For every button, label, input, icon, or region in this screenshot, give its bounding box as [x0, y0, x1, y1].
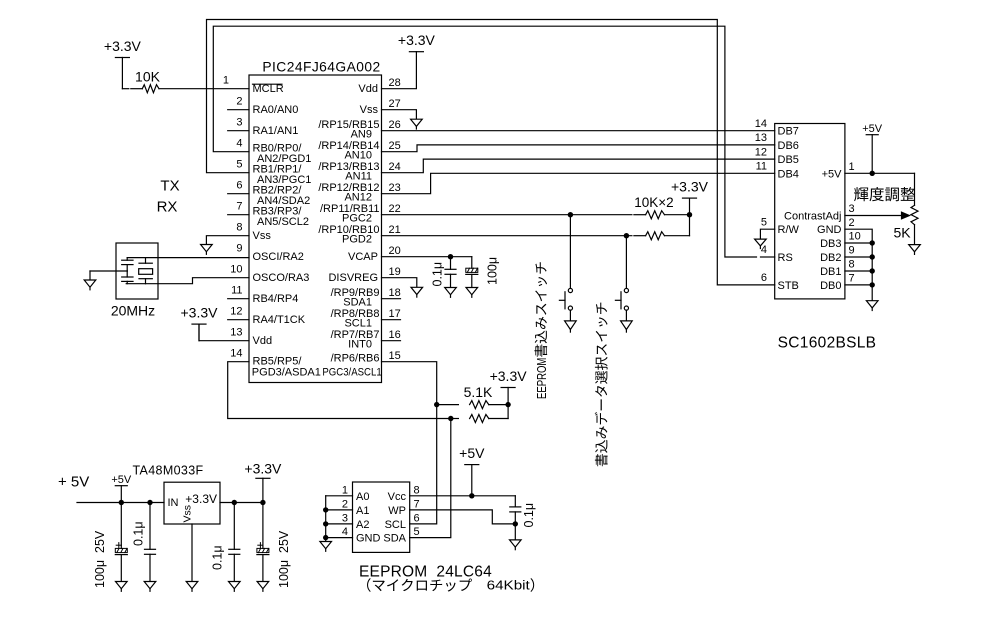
svg-text:+5V: +5V — [459, 445, 485, 461]
svg-text:OSCI/RA2: OSCI/RA2 — [253, 251, 304, 263]
svg-text:22: 22 — [389, 203, 401, 215]
wire EEPROM WP to gnd — [410, 510, 516, 524]
svg-text:AN12: AN12 — [344, 192, 372, 204]
wire U1 pin23 RB12 to LCD DB4 — [382, 173, 775, 193]
svg-text:25: 25 — [389, 140, 401, 152]
resonator X1 enclosure box — [116, 243, 158, 299]
junction (C5/WP gnd) — [513, 521, 518, 526]
svg-text:+5V: +5V — [822, 168, 843, 180]
label 100u (VCAP) — [486, 257, 500, 285]
wire SW1 from PGC2 — [569, 215, 571, 289]
svg-text:PGC2: PGC2 — [342, 213, 372, 225]
junction (SCL node) — [434, 402, 439, 407]
ground (DISVREG) — [411, 287, 423, 294]
svg-text:10K: 10K — [135, 69, 161, 85]
ground (C5/WP) — [510, 540, 522, 547]
wire LCD pin2 GND — [845, 229, 872, 301]
junction (+5V EEPROM) — [469, 493, 474, 498]
wire EEPROM A2 — [326, 523, 353, 525]
ground (C7) — [144, 582, 156, 589]
junction (+5V LCD) — [870, 171, 875, 176]
svg-text:1: 1 — [849, 161, 855, 173]
junction (C8) — [232, 500, 237, 505]
crystal Y1 20MHz symbol — [145, 258, 147, 264]
ground (resonator) — [84, 280, 96, 287]
svg-text:0.1μ: 0.1μ — [522, 503, 536, 528]
svg-text:EEPROM 24LC64: EEPROM 24LC64 — [359, 564, 492, 581]
svg-text:12: 12 — [755, 146, 767, 158]
svg-text:5: 5 — [414, 526, 420, 538]
switch SW2 (data select) — [624, 288, 628, 292]
wire EEPROM A1 — [326, 509, 353, 511]
wire R5 to +3.3V node — [665, 214, 690, 216]
svg-text:10: 10 — [849, 231, 861, 243]
svg-text:6: 6 — [236, 179, 242, 191]
svg-text:7: 7 — [236, 200, 242, 212]
capacitor C6 100u 25V electrolytic — [120, 503, 122, 549]
svg-text:STB: STB — [778, 280, 799, 292]
wire pot top — [914, 173, 916, 205]
junction DB0 — [870, 282, 875, 287]
svg-text:13: 13 — [755, 132, 767, 144]
svg-text:20MHz: 20MHz — [111, 303, 155, 319]
wire SDA to 5.1K resistor — [451, 418, 459, 420]
capacitor C5 0.1u (EEPROM) — [514, 496, 516, 507]
resistor R3 5.1K (SCL pull-up) — [470, 401, 489, 409]
U1 pin 17 stub wire — [382, 319, 401, 321]
svg-text:8: 8 — [414, 484, 420, 496]
svg-text:28: 28 — [389, 77, 401, 89]
wire U1 pin8 Vss to ground — [206, 236, 249, 245]
wire LCD DB3 to gnd — [845, 242, 872, 244]
svg-text:17: 17 — [389, 308, 401, 320]
U1 pin 12 stub wire — [228, 319, 249, 321]
svg-text:RA4/T1CK: RA4/T1CK — [253, 314, 306, 326]
svg-text:/RP6/RB6: /RP6/RB6 — [331, 353, 380, 365]
wire U1 pin4 RB0 to LCD RS (loop B) — [213, 26, 756, 257]
svg-text:3: 3 — [236, 116, 242, 128]
ground (EEPROM address/GND) — [320, 542, 332, 549]
resistor R5 10K — [646, 211, 665, 219]
wire U1 pin22 PGC2 — [382, 214, 632, 216]
svg-text:2: 2 — [849, 217, 855, 229]
svg-text:+5V: +5V — [111, 474, 132, 486]
wire U1 pin24 RB13 to LCD DB5 — [382, 159, 775, 173]
svg-text:SCL: SCL — [385, 519, 406, 531]
svg-text:100μ 25V: 100μ 25V — [277, 530, 291, 588]
svg-text:+3.3V: +3.3V — [671, 179, 709, 195]
label EEPROM write switch (vertical) — [534, 262, 549, 399]
svg-text:DB2: DB2 — [820, 252, 841, 264]
svg-text:0.1μ: 0.1μ — [431, 262, 445, 287]
svg-text:2: 2 — [342, 498, 348, 510]
junction (VCAP node) — [448, 254, 453, 259]
wire R1 to U1 pin 1 — [159, 88, 249, 90]
svg-text:14: 14 — [755, 118, 767, 130]
svg-text:DB3: DB3 — [820, 238, 841, 250]
svg-text:64Kbit: 64Kbit — [487, 578, 531, 593]
svg-text:1: 1 — [342, 484, 348, 496]
wire +5V input rail — [77, 502, 164, 504]
wire pot bottom — [914, 225, 916, 245]
svg-text:4: 4 — [761, 244, 767, 256]
svg-text:VCAP: VCAP — [348, 251, 378, 263]
junction (C9) — [260, 500, 265, 505]
label write data select switch (vertical) — [595, 303, 608, 467]
svg-text:+3.3V: +3.3V — [181, 305, 219, 321]
ground (C9) — [257, 582, 269, 589]
wire LCD R/W to ground — [760, 229, 774, 239]
wire SW2 from PGD2 — [625, 236, 627, 289]
svg-text:GND: GND — [817, 224, 842, 236]
wire U1 pin9 OSCI to resonator — [127, 257, 249, 259]
capacitor C9 100u 25V electrolytic — [262, 503, 264, 549]
svg-text:11: 11 — [231, 284, 242, 296]
svg-text:Vss: Vss — [360, 104, 379, 116]
resonator bottom rail — [126, 283, 158, 285]
svg-text:RS: RS — [778, 252, 793, 264]
ground (U1 Vss pin27) — [411, 119, 423, 126]
resistor R6 10K — [646, 232, 665, 240]
svg-text:EEPROM: EEPROM — [534, 358, 549, 399]
wire SCL to 5.1K resistor — [437, 404, 459, 406]
load capacitor C2 (in resonator) — [126, 271, 128, 277]
svg-text:6: 6 — [761, 272, 767, 284]
wire EEPROM A0 — [326, 495, 353, 497]
svg-text:+ 5V: + 5V — [58, 474, 89, 491]
wire LCD DB0 to gnd — [845, 284, 872, 286]
svg-text:INT0: INT0 — [348, 339, 372, 351]
ground (U3 Vss) — [186, 582, 198, 589]
svg-text:7: 7 — [414, 498, 420, 510]
svg-text:24: 24 — [389, 161, 401, 173]
potentiometer VR1 5K — [911, 205, 918, 224]
svg-text:DB1: DB1 — [820, 266, 841, 278]
svg-text:MCLR: MCLR — [253, 83, 284, 95]
wire RS segment — [761, 256, 775, 258]
svg-text:10: 10 — [230, 263, 242, 275]
capacitor C8 0.1u — [233, 503, 235, 550]
wire U1 pin10 OSCO to resonator — [158, 278, 249, 284]
wire U1 pin19 DISVREG to ground — [382, 278, 417, 288]
U1 pin 11 stub wire — [228, 298, 249, 300]
U1 pin 7 stub wire — [228, 214, 249, 216]
wire R6 to +3.3V node — [665, 235, 690, 237]
LCD module body — [775, 124, 845, 299]
svg-text:AN11: AN11 — [345, 171, 372, 183]
ground (SW2) — [621, 321, 633, 330]
IC U1 PIC24FJ64GA002 body — [249, 75, 382, 383]
svg-text:RX: RX — [157, 199, 178, 216]
svg-text:6: 6 — [414, 512, 420, 524]
junction (10K +3.3V node) — [687, 212, 692, 217]
label (Microchip 64Kbit) — [367, 578, 371, 592]
junction DB2 — [870, 254, 875, 259]
junction (5.1K +3.3V node) — [505, 402, 510, 407]
ground (C8) — [229, 582, 241, 589]
svg-text:R/W: R/W — [778, 224, 800, 236]
svg-text:5: 5 — [761, 216, 767, 228]
svg-text:DB6: DB6 — [778, 140, 799, 152]
svg-text:+3.3V: +3.3V — [398, 32, 436, 48]
svg-text:AN10: AN10 — [344, 150, 372, 162]
svg-text:AN9: AN9 — [351, 129, 372, 141]
resistor R1 10K — [142, 85, 159, 93]
svg-text:5K: 5K — [893, 225, 911, 241]
svg-text:SDA1: SDA1 — [343, 297, 372, 309]
load capacitor C1 (in resonator) — [126, 258, 128, 261]
label brightness adjust (kido chosei) — [854, 187, 868, 201]
svg-text:+3.3V: +3.3V — [185, 492, 217, 506]
switch SW1 (EEPROM write) — [568, 288, 572, 292]
resistor R4 5.1K (SDA pull-up) — [470, 415, 489, 423]
junction (switch SW2 node) — [624, 233, 629, 238]
svg-text:RB4/RP4: RB4/RP4 — [253, 293, 299, 305]
svg-text:OSCO/RA3: OSCO/RA3 — [253, 272, 310, 284]
svg-text:A2: A2 — [356, 519, 369, 531]
ground (C4) — [466, 288, 478, 295]
svg-text:DB0: DB0 — [820, 280, 841, 292]
U1 pin 16 stub wire — [382, 340, 401, 342]
svg-text:4: 4 — [342, 526, 348, 538]
svg-text:DISVREG: DISVREG — [328, 272, 378, 284]
svg-text:PGD2: PGD2 — [342, 234, 372, 246]
svg-text:Vdd: Vdd — [358, 83, 378, 95]
svg-text:TA48M033F: TA48M033F — [133, 464, 204, 478]
capacitor C3 0.1u (VCAP) — [450, 257, 452, 270]
wire U1 pin28 Vdd — [382, 52, 417, 89]
U1 pin 3 stub wire — [228, 130, 249, 132]
wire U1 pin25 RB14 to LCD DB6 — [382, 145, 775, 152]
svg-text:0.1μ: 0.1μ — [132, 521, 146, 546]
EEPROM U2 body — [353, 482, 410, 552]
svg-text:8: 8 — [236, 221, 242, 233]
wire SW2 to ground — [625, 310, 627, 321]
svg-text:4: 4 — [236, 137, 242, 149]
ground (U1 Vss pin8) — [201, 245, 213, 252]
svg-text:16: 16 — [389, 329, 401, 341]
svg-text:PGD3/ASDA1: PGD3/ASDA1 — [252, 367, 321, 379]
ground (SW1) — [565, 321, 577, 330]
capacitor C7 0.1u — [149, 503, 151, 550]
svg-text:RA1/AN1: RA1/AN1 — [253, 125, 299, 137]
junction GND — [323, 535, 328, 540]
wire LCD pin3 ContrastAdj to wiper — [845, 215, 901, 217]
label 0.1u (C8) — [211, 545, 225, 570]
junction (SDA node) — [448, 416, 453, 421]
wire MCLR node — [122, 88, 128, 90]
wire +3.3V output rail — [220, 502, 263, 504]
junction DB1 — [870, 268, 875, 273]
svg-text:DB7: DB7 — [778, 126, 799, 138]
U1 pin 6 stub wire — [228, 193, 249, 195]
svg-text:ContrastAdj: ContrastAdj — [784, 211, 841, 223]
regulator U3 TA48M033F body — [164, 482, 220, 524]
label 0.1u (VCAP) — [431, 262, 445, 287]
wire U1 pin5 RB1 to LCD STB (loop A) — [207, 20, 775, 285]
svg-text:0.1μ: 0.1μ — [211, 545, 225, 570]
plus mark (C9) — [258, 544, 263, 546]
plus mark (C6) — [116, 544, 121, 546]
svg-text:Vdd: Vdd — [253, 335, 273, 347]
wire U1 pin13 Vdd — [199, 324, 249, 341]
svg-text:PIC24FJ64GA002: PIC24FJ64GA002 — [262, 60, 380, 75]
junction A1 — [323, 507, 328, 512]
svg-text:+3.3V: +3.3V — [244, 460, 282, 476]
label 100u 25V (C9) — [277, 530, 291, 588]
label 0.1u (EEPROM) — [522, 503, 536, 528]
svg-text:A1: A1 — [356, 505, 369, 517]
svg-text:21: 21 — [389, 224, 401, 236]
wire U1 pin20 VCAP — [382, 256, 472, 258]
svg-text:12: 12 — [230, 305, 242, 317]
svg-text:RA0/AN0: RA0/AN0 — [253, 104, 299, 116]
wire LCD DB2 to gnd — [845, 256, 872, 258]
svg-text:PGC3/ASCL1: PGC3/ASCL1 — [322, 366, 381, 378]
svg-text:19: 19 — [389, 266, 401, 278]
svg-text:+3.3V: +3.3V — [490, 368, 528, 384]
wire U1 pin26 RB15 to LCD DB7 — [382, 130, 775, 132]
wire LCD pin1 +5V — [845, 172, 915, 174]
svg-text:100μ 25V: 100μ 25V — [93, 530, 107, 588]
wire U1 pin27 Vss to ground — [382, 110, 417, 120]
svg-text:IN: IN — [168, 497, 179, 509]
ground (LCD gnd net) — [866, 301, 878, 308]
wire EEPROM GND — [326, 537, 353, 539]
svg-text:1: 1 — [223, 74, 229, 86]
svg-text:AN5/SCL2: AN5/SCL2 — [257, 216, 309, 228]
wire SDA down to EEPROM — [410, 419, 451, 538]
svg-text:9: 9 — [849, 245, 855, 257]
svg-text:GND: GND — [356, 533, 381, 545]
wire SW1 to ground — [569, 310, 571, 321]
svg-text:20: 20 — [389, 245, 401, 257]
svg-text:+3.3V: +3.3V — [104, 38, 142, 54]
U1 pin 2 stub wire — [228, 109, 249, 111]
svg-text:9: 9 — [236, 242, 242, 254]
ground (C6) — [116, 582, 128, 589]
svg-text:Vcc: Vcc — [388, 491, 407, 503]
svg-text:26: 26 — [389, 119, 401, 131]
wire regulator Vss to ground — [191, 524, 193, 582]
ground (LCD R/W) — [755, 239, 767, 246]
svg-text:5: 5 — [236, 158, 242, 170]
svg-text:23: 23 — [389, 182, 401, 194]
svg-text:+5V: +5V — [862, 123, 883, 135]
wire EEPROM Vcc — [410, 495, 516, 497]
wire LCD DB1 to gnd — [845, 270, 872, 272]
svg-text:3: 3 — [342, 512, 348, 524]
svg-text:A0: A0 — [356, 491, 369, 503]
U1 pin 18 stub wire — [382, 298, 401, 300]
svg-text:3: 3 — [849, 203, 855, 215]
resonator ground lead — [90, 270, 127, 272]
wire EEPROM address tie — [325, 496, 327, 542]
svg-text:DB4: DB4 — [778, 168, 799, 180]
wire U1 pin21 PGD2 — [382, 235, 632, 237]
junction (C7) — [147, 500, 152, 505]
capacitor C4 100u (VCAP) — [471, 257, 473, 269]
svg-text:TX: TX — [160, 178, 179, 195]
svg-text:14: 14 — [230, 347, 242, 359]
wire R3 to +3.3V — [489, 404, 508, 406]
ground (C3) — [445, 288, 457, 295]
ground (VR1) — [909, 245, 921, 252]
svg-text:Vss: Vss — [253, 230, 272, 242]
svg-text:SCL1: SCL1 — [344, 318, 372, 330]
svg-text:Vss: Vss — [182, 505, 194, 523]
svg-text:11: 11 — [756, 161, 767, 173]
svg-text:8: 8 — [849, 259, 855, 271]
svg-text:SDA: SDA — [383, 533, 406, 545]
svg-text:10K×2: 10K×2 — [634, 195, 673, 210]
svg-text:WP: WP — [388, 505, 406, 517]
junction (C6) — [119, 500, 124, 505]
svg-text:100μ: 100μ — [486, 257, 500, 285]
junction (switch SW1 node) — [568, 212, 573, 217]
wire C5 to ground — [514, 524, 516, 540]
label Vss (regulator) — [182, 505, 194, 523]
label 0.1u (C7) — [132, 521, 146, 546]
svg-text:18: 18 — [389, 287, 401, 299]
pot wiper arrow — [902, 212, 910, 219]
svg-text:13: 13 — [230, 326, 242, 338]
wire U1 pin15 ASCL1 to EEPROM SCL — [382, 362, 437, 524]
svg-text:7: 7 — [849, 273, 855, 285]
svg-text:27: 27 — [389, 98, 401, 110]
svg-text:SC1602BSLB: SC1602BSLB — [778, 335, 877, 352]
svg-text:2: 2 — [236, 95, 242, 107]
svg-text:15: 15 — [389, 350, 401, 362]
svg-text:5.1K: 5.1K — [464, 384, 493, 400]
junction A2 — [323, 521, 328, 526]
wire R4 to +3.3V — [489, 418, 508, 420]
junction DB3 — [870, 240, 875, 245]
label 100u 25V (C6) — [93, 530, 107, 588]
wire U1 pin14 ASDA1 under chip — [228, 362, 451, 419]
svg-text:DB5: DB5 — [778, 154, 799, 166]
